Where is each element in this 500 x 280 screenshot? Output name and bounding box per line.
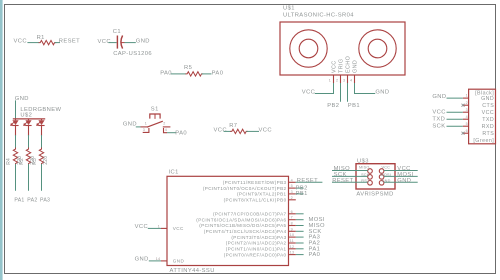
wire RESET bbox=[296, 181, 323, 183]
svg-text:10: 10 bbox=[290, 233, 295, 237]
svg-text:AVRISPSMD: AVRISPSMD bbox=[356, 192, 393, 198]
svg-text:ULTRASONIC-HC-SR04: ULTRASONIC-HC-SR04 bbox=[283, 12, 354, 18]
svg-text:S1: S1 bbox=[151, 106, 159, 112]
ultrasonic module U$1 bbox=[280, 6, 405, 83]
svg-text:RESET: RESET bbox=[332, 178, 353, 184]
node VCC (U$3) bbox=[397, 166, 410, 172]
node PA2 bbox=[27, 198, 37, 204]
svg-text:SCK: SCK bbox=[432, 124, 445, 130]
svg-text:8: 8 bbox=[291, 222, 293, 226]
node SCK (IC1) bbox=[309, 229, 322, 235]
svg-text:13: 13 bbox=[290, 251, 295, 255]
svg-text:2: 2 bbox=[291, 196, 293, 200]
svg-text:PA3: PA3 bbox=[40, 198, 50, 204]
wire bbox=[246, 130, 259, 132]
node MISO (U$3) bbox=[334, 166, 351, 172]
svg-text:ATTINY44-SSU: ATTINY44-SSU bbox=[170, 268, 215, 274]
svg-text:RESET: RESET bbox=[59, 38, 80, 44]
wire bbox=[15, 100, 17, 118]
svg-text:TXD: TXD bbox=[482, 117, 494, 123]
svg-text:2: 2 bbox=[163, 122, 165, 126]
wire bbox=[148, 227, 161, 229]
svg-text:220: 220 bbox=[43, 156, 49, 165]
svg-text:VCC: VCC bbox=[432, 110, 445, 116]
wire MISO bbox=[332, 170, 368, 172]
svg-text:4: 4 bbox=[350, 79, 352, 83]
svg-text:3: 3 bbox=[143, 128, 145, 132]
svg-text:PA0: PA0 bbox=[212, 70, 224, 76]
LED array U$2 bbox=[13, 107, 62, 119]
pin 11 PA2 bbox=[289, 239, 296, 243]
svg-text:VCC: VCC bbox=[302, 89, 315, 95]
resistor R5 bbox=[184, 65, 203, 76]
resistor R3 bbox=[32, 148, 49, 166]
svg-text:R4: R4 bbox=[6, 158, 12, 165]
LED 3 bbox=[37, 119, 45, 136]
LED 2 bbox=[24, 119, 32, 136]
svg-text:TRIG: TRIG bbox=[338, 59, 344, 73]
pin 6 RTS n/c bbox=[462, 129, 469, 135]
svg-text:R2: R2 bbox=[19, 158, 25, 165]
svg-text:PB1: PB1 bbox=[348, 103, 360, 109]
svg-text:VCC: VCC bbox=[14, 38, 27, 44]
svg-text:PA1: PA1 bbox=[14, 198, 24, 204]
wire bbox=[41, 135, 43, 148]
node MOSI (IC1) bbox=[309, 217, 325, 223]
svg-text:6: 6 bbox=[466, 129, 468, 133]
svg-text:(PCINT1/AIN0/ADC1)PA1: (PCINT1/AIN0/ADC1)PA1 bbox=[226, 247, 287, 252]
pin 3 PB1 bbox=[289, 190, 296, 194]
node GND (FTDI) bbox=[432, 94, 446, 100]
wire bbox=[15, 135, 17, 148]
pin 6 PA7 bbox=[289, 210, 296, 214]
wire PB1 bbox=[296, 193, 304, 195]
wire bbox=[28, 164, 30, 191]
node VCC (R7 left) bbox=[214, 128, 227, 134]
svg-text:1: 1 bbox=[158, 224, 160, 228]
pin 14 GND bbox=[156, 257, 167, 261]
wire bbox=[224, 130, 231, 132]
svg-text:(PCINT4/T1/SCL/USCK/ADC4)PA4: (PCINT4/T1/SCL/USCK/ADC4)PA4 bbox=[204, 229, 287, 234]
FTDI connector bbox=[469, 89, 496, 144]
node PA3 (IC1) bbox=[309, 235, 321, 241]
wire bbox=[28, 135, 30, 148]
svg-text:4: 4 bbox=[165, 128, 167, 132]
svg-text:PA0: PA0 bbox=[175, 131, 187, 137]
svg-text:VCC: VCC bbox=[331, 60, 337, 73]
wire bbox=[125, 42, 136, 44]
node PA0 (IC1) bbox=[309, 252, 321, 258]
wire PB1 net bbox=[347, 83, 349, 102]
pin 5 PB2 bbox=[289, 184, 296, 188]
svg-text:U$2: U$2 bbox=[20, 113, 32, 119]
svg-text:ECHO: ECHO bbox=[345, 56, 351, 73]
svg-text:VCC: VCC bbox=[98, 39, 111, 45]
svg-text:1: 1 bbox=[145, 122, 147, 126]
node PB2 bbox=[327, 103, 339, 109]
svg-text:2: 2 bbox=[336, 79, 338, 83]
node VCC (FTDI) bbox=[432, 110, 445, 116]
node VCC (R7 right) bbox=[259, 128, 272, 134]
svg-text:9: 9 bbox=[291, 227, 293, 231]
svg-text:(PCINT3/T0/ADC3)PA3: (PCINT3/T0/ADC3)PA3 bbox=[231, 235, 286, 240]
svg-text:VCC: VCC bbox=[382, 166, 391, 170]
svg-text:R1: R1 bbox=[37, 35, 45, 41]
wire GND bbox=[384, 181, 418, 183]
wire PB2 net bbox=[340, 83, 342, 102]
node PA1 (IC1) bbox=[309, 246, 321, 252]
svg-text:PB1: PB1 bbox=[296, 191, 308, 197]
svg-text:GND: GND bbox=[352, 60, 358, 73]
svg-text:(PCINT7/ICP/OC0B/ADC7)PA7: (PCINT7/ICP/OC0B/ADC7)PA7 bbox=[213, 212, 287, 217]
svg-text:3: 3 bbox=[466, 108, 468, 112]
svg-text:VCC: VCC bbox=[259, 128, 272, 134]
svg-text:GND: GND bbox=[432, 94, 446, 100]
resistor R2 bbox=[19, 148, 36, 166]
svg-text:(PCINT9/XTAL2)PB1: (PCINT9/XTAL2)PB1 bbox=[237, 192, 287, 197]
svg-text:PA2: PA2 bbox=[27, 198, 37, 204]
svg-text:RTS: RTS bbox=[482, 131, 494, 137]
node GND (U$3) bbox=[397, 178, 411, 184]
svg-text:PA0: PA0 bbox=[160, 70, 172, 76]
wire PA3 bbox=[296, 236, 304, 238]
svg-text:14: 14 bbox=[156, 257, 161, 261]
svg-text:GND: GND bbox=[173, 259, 185, 264]
wire bbox=[108, 42, 116, 44]
svg-text:6: 6 bbox=[291, 210, 293, 214]
wire bbox=[296, 213, 304, 215]
node SCK (U$3) bbox=[334, 172, 347, 178]
wire bbox=[41, 164, 43, 191]
node RESET (IC1) bbox=[297, 178, 318, 184]
LED 1 bbox=[11, 119, 19, 136]
svg-text:R3: R3 bbox=[32, 158, 38, 165]
svg-text:IC1: IC1 bbox=[169, 170, 179, 176]
node PB2 (IC1) bbox=[296, 185, 308, 191]
svg-text:5: 5 bbox=[466, 122, 468, 126]
node VCC (U$1) bbox=[302, 89, 315, 95]
svg-text:PB2: PB2 bbox=[327, 103, 339, 109]
svg-text:C1: C1 bbox=[113, 29, 121, 35]
wire MISO bbox=[296, 225, 304, 227]
svg-text:(PCINT0/AREF/ADC0)PA0: (PCINT0/AREF/ADC0)PA0 bbox=[224, 252, 287, 257]
node RESET bbox=[59, 38, 80, 44]
wire SCK bbox=[296, 230, 304, 232]
svg-text:1: 1 bbox=[329, 79, 331, 83]
wire SCK bbox=[332, 175, 368, 177]
node MISO (IC1) bbox=[309, 223, 326, 229]
pin 7 PA6 bbox=[289, 216, 296, 220]
wire bbox=[171, 73, 186, 75]
wire PA1 bbox=[296, 248, 304, 250]
svg-text:4: 4 bbox=[466, 115, 468, 119]
svg-text:MISO: MISO bbox=[359, 166, 370, 170]
wire bbox=[149, 260, 161, 262]
node PA0 (R5 right) bbox=[212, 70, 224, 76]
svg-text:(PCINT5/OC1B/MISO/DO/ADC5)PA5: (PCINT5/OC1B/MISO/DO/ADC5)PA5 bbox=[199, 223, 286, 228]
wire GND net bbox=[355, 83, 376, 94]
svg-text:(PCINT10/INT0/OC0A/CKOUT)PB2: (PCINT10/INT0/OC0A/CKOUT)PB2 bbox=[203, 186, 287, 191]
svg-text:[Green]: [Green] bbox=[473, 138, 494, 144]
pin 9 PA4 bbox=[289, 227, 296, 231]
wire bbox=[27, 42, 39, 44]
svg-text:TXD: TXD bbox=[432, 117, 445, 123]
wire VCC bbox=[447, 111, 463, 113]
svg-text:VCC: VCC bbox=[135, 224, 148, 230]
node GND (U$1) bbox=[375, 89, 389, 95]
resistor R4 bbox=[6, 148, 23, 166]
ISP header U$3 bbox=[356, 158, 395, 197]
svg-text:GND: GND bbox=[123, 122, 137, 128]
wire bbox=[136, 126, 141, 128]
node VCC (R1 left) bbox=[14, 38, 27, 44]
node PA2 (IC1) bbox=[309, 241, 321, 247]
svg-text:GND: GND bbox=[136, 38, 150, 44]
pin 12 PA1 bbox=[289, 245, 296, 249]
node SCK (FTDI) bbox=[432, 124, 445, 130]
svg-text:RESET: RESET bbox=[297, 178, 318, 184]
wire VCC net bbox=[315, 83, 334, 94]
svg-text:GND: GND bbox=[375, 89, 389, 95]
pin 2 PB0 bbox=[289, 196, 296, 200]
svg-text:11: 11 bbox=[290, 239, 294, 243]
svg-text:PA0: PA0 bbox=[309, 252, 321, 258]
node PB1 bbox=[348, 103, 360, 109]
switch S1 bbox=[141, 106, 171, 132]
pin 5 RXD bbox=[463, 122, 469, 126]
node TXD (FTDI) bbox=[432, 117, 445, 123]
wire bbox=[15, 164, 17, 191]
svg-text:RXD: RXD bbox=[482, 124, 495, 130]
svg-text:7: 7 bbox=[291, 216, 293, 220]
svg-text:(PCINT11/RESET/DW)PB3: (PCINT11/RESET/DW)PB3 bbox=[223, 180, 287, 185]
node GND (C1 right) bbox=[136, 38, 150, 44]
svg-text:2: 2 bbox=[466, 101, 468, 105]
node GND (LED bus) bbox=[15, 96, 29, 102]
svg-text:GND: GND bbox=[135, 257, 149, 263]
node MOSI (U$3) bbox=[397, 172, 413, 178]
resistor R7 bbox=[229, 123, 248, 134]
svg-text:GND: GND bbox=[15, 96, 29, 102]
svg-text:(PCINT6/OC1A/SDA/MOSI/ADC6)PA6: (PCINT6/OC1A/SDA/MOSI/ADC6)PA6 bbox=[196, 217, 286, 222]
svg-text:R7: R7 bbox=[229, 123, 237, 129]
wire GND bbox=[447, 97, 463, 99]
wire SCK bbox=[447, 125, 463, 127]
pin 10 PA3 bbox=[289, 233, 296, 237]
pin 8 PA5 bbox=[289, 222, 296, 226]
svg-text:5: 5 bbox=[291, 184, 293, 188]
node PA0 (S1) bbox=[175, 131, 187, 137]
wire bbox=[55, 42, 60, 44]
node PB1 (IC1) bbox=[296, 191, 308, 197]
svg-text:R5: R5 bbox=[184, 65, 192, 71]
pin 13 PA0 bbox=[289, 251, 296, 255]
svg-text:GND: GND bbox=[481, 96, 494, 102]
svg-text:VCC: VCC bbox=[173, 226, 184, 231]
wire MOSI bbox=[384, 175, 418, 177]
IC IC1 ATTINY44 bbox=[167, 170, 289, 275]
node GND (S1) bbox=[123, 122, 137, 128]
wire bbox=[202, 73, 212, 75]
pin 1 GND bbox=[463, 94, 469, 98]
node PA0 (R5 left) bbox=[160, 70, 172, 76]
pin 2 CTS n/c bbox=[462, 101, 469, 107]
wire PA2 bbox=[296, 242, 304, 244]
pin 4 TXD bbox=[463, 115, 469, 119]
node PA1 bbox=[14, 198, 24, 204]
wire MOSI bbox=[296, 219, 304, 221]
node RESET (U$3) bbox=[332, 178, 353, 184]
svg-text:VCC: VCC bbox=[482, 110, 495, 116]
node PA3 bbox=[40, 198, 50, 204]
pin 3 VCC bbox=[463, 108, 469, 112]
resistor R1 bbox=[37, 35, 57, 45]
wire bbox=[167, 132, 176, 134]
wire RESET bbox=[332, 181, 368, 183]
svg-text:3: 3 bbox=[343, 79, 345, 83]
svg-text:12: 12 bbox=[290, 245, 295, 249]
node GND (IC1) bbox=[135, 257, 149, 263]
wire TXD bbox=[447, 118, 463, 120]
capacitor C1 bbox=[113, 29, 152, 57]
svg-text:(PCINT2/AIN1/ADC2)PA2: (PCINT2/AIN1/ADC2)PA2 bbox=[226, 241, 287, 246]
svg-text:U$1: U$1 bbox=[283, 6, 295, 12]
svg-text:1: 1 bbox=[466, 94, 468, 98]
wire PA0 bbox=[296, 254, 304, 256]
pin 1 VCC bbox=[158, 224, 167, 228]
svg-text:(PCINT8/XTAL1/CLKI)PB0: (PCINT8/XTAL1/CLKI)PB0 bbox=[224, 198, 287, 203]
svg-text:CAP-US1206: CAP-US1206 bbox=[113, 51, 152, 57]
svg-text:CTS: CTS bbox=[482, 103, 494, 109]
svg-text:VCC: VCC bbox=[214, 128, 227, 134]
svg-text:GND: GND bbox=[397, 178, 411, 184]
node VCC (C1 left) bbox=[98, 39, 111, 45]
svg-text:3: 3 bbox=[291, 190, 293, 194]
svg-text:4: 4 bbox=[291, 178, 293, 182]
wire VCC bbox=[384, 170, 418, 172]
pin 4 PB3 bbox=[289, 178, 296, 182]
node VCC (IC1) bbox=[135, 224, 148, 230]
wire PB2 bbox=[296, 187, 304, 189]
